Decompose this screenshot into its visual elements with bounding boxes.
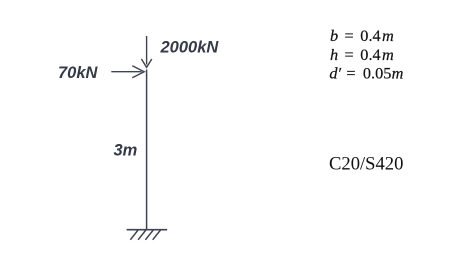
horizontal load arrow 70kN bbox=[111, 66, 144, 78]
fixed support base line bbox=[127, 229, 168, 231]
svg-text:70kN: 70kN bbox=[58, 64, 99, 82]
svg-text:3m: 3m bbox=[114, 141, 138, 159]
axial point load arrow 2000kN bbox=[141, 36, 151, 67]
svg-text:C20/S420: C20/S420 bbox=[329, 154, 403, 175]
column member bbox=[146, 70, 148, 230]
svg-text:2000kN: 2000kN bbox=[160, 38, 220, 56]
support hatching bbox=[130, 230, 160, 240]
svg-text:d′=0.05m: d′=0.05m bbox=[329, 63, 403, 82]
